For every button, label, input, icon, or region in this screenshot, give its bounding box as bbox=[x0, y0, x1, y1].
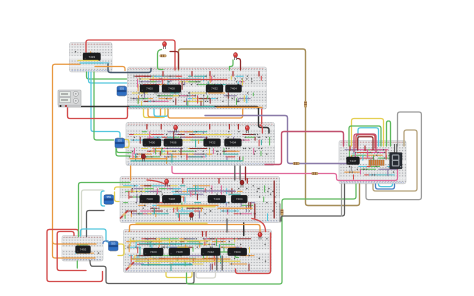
breadboard BB3 bbox=[120, 177, 280, 223]
wire orange line on BB3 b bbox=[218, 207, 252, 209]
svg-text:7447: 7447 bbox=[350, 159, 357, 163]
svg-text:7432: 7432 bbox=[214, 197, 221, 201]
wire bundle on BB6 bbox=[345, 149, 402, 179]
resistor R inline olive bbox=[304, 101, 306, 108]
wire red hook right BB2 bbox=[260, 125, 263, 133]
wire gray wire BB6 to BB3 bbox=[281, 184, 345, 221]
wire bundle on BB0 bbox=[75, 51, 109, 63]
svg-text:7408: 7408 bbox=[170, 141, 177, 145]
wire green wire BB0 to 555 T2 bbox=[94, 72, 114, 140]
small resistors on rails bbox=[147, 72, 365, 238]
resistor Rd1 BB3 left (diagonal) bbox=[121, 211, 128, 218]
wire black wire BB3 to BB4 bbox=[243, 223, 245, 236]
wire red loop above BB6 bbox=[356, 135, 375, 148]
wire cyan wire BB0 to BB1 bbox=[89, 72, 127, 83]
IC U14 on BB4 bbox=[169, 248, 190, 256]
resistor Rd2 BB4 left (diagonal) bbox=[127, 263, 134, 270]
wire yellow hook right of 555 T4 bbox=[118, 244, 124, 256]
wire gray wire 555 T3 to BB5 bbox=[87, 211, 105, 237]
wire green wire LED2 to BB1 bbox=[230, 60, 234, 70]
wire magenta loop over BB6 bbox=[354, 134, 376, 152]
wire yellow hook 555 T2 bbox=[125, 140, 130, 148]
IC U5 on BB2 bbox=[143, 139, 161, 147]
wire yellow line on BB4 b bbox=[135, 260, 240, 262]
svg-text:7408: 7408 bbox=[168, 87, 175, 91]
wire darkred vertical on BB3 bbox=[254, 204, 256, 218]
wire cyan loop below BB6 bbox=[379, 184, 393, 187]
wire bundle on BB5 bbox=[76, 245, 100, 254]
LED D4 on BB2 bbox=[245, 126, 249, 134]
wire red curve BB3 to BB4 bbox=[252, 219, 266, 232]
wire navy wire BB0 to BB1 bbox=[108, 64, 151, 73]
wire black wire on BB4 top bbox=[243, 230, 245, 236]
resistor network RN1 on BB6 bbox=[369, 160, 384, 166]
wire yellow loop above BB6 bbox=[352, 119, 384, 147]
wire cyan U loop BB1-BB2 bbox=[154, 109, 168, 116]
wire cyan arc over BB5 to 555 T4 bbox=[81, 229, 109, 242]
resistor R inline pink bbox=[312, 172, 319, 174]
wire gray big loop around BB6 right bbox=[366, 112, 421, 200]
wire darkred wire BB2-BB3 bbox=[245, 167, 247, 180]
wire green wire BB0 to BB1 bbox=[87, 72, 127, 79]
svg-text:7404: 7404 bbox=[236, 197, 243, 201]
wire orange wire BB2 to BB3 bbox=[130, 166, 132, 180]
svg-text:7408: 7408 bbox=[168, 197, 175, 201]
wire yellow hook 555 T3 bbox=[115, 192, 120, 202]
wire bundle on BB3 bbox=[124, 185, 277, 221]
svg-text:555: 555 bbox=[120, 87, 125, 91]
wire gray drop on BB4 b bbox=[221, 256, 223, 270]
LED D6 on BB3 bbox=[240, 180, 244, 188]
wire green wire BB6 to BB4 (long) bbox=[187, 184, 357, 284]
wire gray wire BB2-BB3 a bbox=[234, 166, 236, 180]
wire crimson wire BB2 to BB6 bbox=[265, 132, 344, 165]
wire gray tick BB3-BB4 gap bbox=[226, 219, 228, 232]
svg-text:7400: 7400 bbox=[146, 197, 153, 201]
IC U2 on BB1 bbox=[162, 85, 181, 93]
IC U10 on BB3 bbox=[162, 195, 181, 203]
IC U7 on BB2 bbox=[204, 139, 221, 147]
7-segment display DS1 bbox=[390, 144, 402, 169]
wire olive wire BB1 to BB6 (long) bbox=[179, 49, 360, 206]
wire red loop around BB5 (inner) bbox=[57, 232, 86, 271]
wire gray wire BB2-BB3 b bbox=[239, 166, 241, 180]
LED D9 on BB2 mid bbox=[142, 154, 146, 162]
wire green wire BB3 to BB5 bbox=[79, 183, 131, 237]
wire darkred hook LED1 bbox=[170, 52, 179, 70]
LED D5 on BB3 bbox=[165, 179, 169, 187]
wire orange branch into BB5 bbox=[53, 242, 97, 245]
wire green wire 555 T2 to BB2 bbox=[117, 148, 132, 153]
wire orange line on BB2 bbox=[130, 158, 167, 160]
wire gray vertical BB3 right bbox=[279, 204, 281, 222]
wire orange wire left loop (BB0 to BB5) bbox=[53, 64, 96, 258]
svg-text:555: 555 bbox=[111, 242, 116, 246]
wire bundle on BB1 bbox=[131, 76, 262, 108]
wire bundle on BB4 bbox=[127, 238, 268, 270]
wire yellow U loop BB1-BB2 bbox=[144, 109, 166, 118]
wire purple wire BB1 to BB6 bbox=[205, 116, 346, 164]
wire green narrow loop above BB6 bbox=[387, 121, 391, 146]
wire darkred hook LED2 bbox=[238, 59, 241, 71]
breadboard BB6 bbox=[339, 141, 406, 184]
wire bundle on BB2 bbox=[129, 131, 270, 163]
wire orange wire BB0 to BB1 bbox=[95, 67, 125, 71]
555 timer T2 bbox=[115, 138, 125, 149]
wire orange U loop BB1-BB2 bbox=[148, 109, 161, 117]
wire yellow wire right of 555 T3 to BB3 bbox=[115, 187, 132, 190]
wire teal line on BB1 bbox=[130, 106, 214, 108]
wire red loop from BB0 to BB1 top bbox=[86, 40, 175, 70]
wire orange arc over BB4 bbox=[130, 225, 261, 232]
IC U17 on BB5 bbox=[76, 246, 91, 254]
wire yellow line on BB2 bbox=[202, 134, 231, 136]
wire green wire below BB5 bbox=[76, 261, 78, 268]
breadboard BB1 bbox=[128, 67, 267, 109]
wire pale wire 555 T3 to BB5 bbox=[82, 190, 104, 237]
LED D7 on BB4 bbox=[258, 232, 262, 240]
wire red wire PSU to BB1 bbox=[68, 106, 128, 119]
svg-text:7432: 7432 bbox=[207, 250, 214, 254]
resistor R inline purple bbox=[293, 162, 300, 164]
svg-text:7404: 7404 bbox=[230, 141, 237, 145]
wire blue hook top of 555 T4 bbox=[103, 241, 108, 244]
wire orange line on BB4 bbox=[131, 258, 230, 260]
wire red wrap BB4 right bbox=[236, 233, 271, 274]
wire gray wire BB6 below b bbox=[341, 184, 343, 216]
IC U1 on BB1 bbox=[140, 85, 159, 93]
wire yellow line on BB3 bbox=[160, 206, 215, 208]
breadboard BB4 bbox=[123, 230, 271, 273]
wire purple line on BB3 bbox=[189, 190, 235, 192]
svg-text:7404: 7404 bbox=[230, 87, 237, 91]
555 timer T3 bbox=[104, 194, 114, 205]
wire yellow line on BB4 a bbox=[131, 240, 210, 242]
IC U9 on BB3 bbox=[140, 195, 160, 203]
svg-text:7432: 7432 bbox=[211, 87, 218, 91]
555 timer T4 bbox=[109, 241, 119, 252]
wire pink wire BB2 to BB6 (long) bbox=[172, 167, 398, 181]
wire yellow U below BB4 bbox=[166, 273, 192, 278]
wire red curve into BB3 top bbox=[147, 180, 166, 185]
IC U11 on BB3 bbox=[208, 195, 226, 203]
wire gray drop on BB4 a bbox=[216, 256, 218, 270]
wire dark gray wire BB5 to BB4 bbox=[90, 261, 194, 284]
wire yellow wire BB3 to BB4 gap bbox=[136, 222, 207, 224]
IC U8 on BB2 bbox=[225, 139, 242, 147]
wire darkred loop above BB6 bbox=[358, 137, 373, 150]
IC U3 on BB1 bbox=[206, 85, 223, 93]
wire teal line on BB2 bbox=[131, 160, 242, 162]
wire green loop above BB6 bbox=[349, 126, 381, 146]
svg-text:7400: 7400 bbox=[146, 87, 153, 91]
svg-text:7432: 7432 bbox=[209, 141, 216, 145]
resistor R inline green bbox=[281, 209, 283, 216]
wire darkred wire BB1 to BB2 bbox=[261, 109, 263, 124]
wire cyan loop above BB6 bbox=[358, 128, 379, 146]
svg-text:7400: 7400 bbox=[150, 250, 157, 254]
LED D2 bbox=[234, 53, 238, 61]
svg-text:7408: 7408 bbox=[176, 250, 183, 254]
IC U4 on BB1 bbox=[226, 85, 242, 93]
LED D3 on BB2 bbox=[174, 125, 178, 133]
IC U13 on BB4 bbox=[143, 248, 163, 256]
555 timer T1 bbox=[117, 86, 127, 97]
LED D1 bbox=[163, 42, 167, 50]
breadboard BB0 bbox=[70, 43, 113, 73]
wire cyan wire BB0 to 555 T2 bbox=[91, 72, 120, 138]
wire cyan hook left of 555 T3 bbox=[101, 191, 105, 206]
wire teal line on BB4 a bbox=[140, 243, 203, 245]
svg-text:7404: 7404 bbox=[234, 250, 241, 254]
LED D8 on BB3 mid bbox=[190, 213, 194, 221]
IC U18 on BB6 bbox=[347, 157, 360, 165]
wire orange line on BB1 bottom bbox=[217, 106, 262, 108]
wire green wire LED1 to BB1 bbox=[158, 50, 164, 70]
svg-text:555: 555 bbox=[118, 139, 123, 143]
wire orange L wire BB1-BB2 bbox=[168, 109, 243, 118]
wire green hooks below 555 T2 bbox=[116, 148, 130, 157]
wire orange line on BB3 a bbox=[157, 204, 218, 206]
svg-text:7400: 7400 bbox=[149, 141, 156, 145]
wire red line on BB1 upper bbox=[150, 79, 227, 81]
IC U12 on BB3 bbox=[231, 195, 247, 203]
svg-text:555: 555 bbox=[107, 195, 112, 199]
wire pale U loop below BB4 bbox=[196, 273, 216, 279]
svg-text:7493: 7493 bbox=[88, 55, 95, 59]
wire red loop around BB5 (outer) bbox=[47, 229, 103, 281]
power supply PS1 bbox=[58, 90, 81, 107]
breadboard BB5 bbox=[62, 236, 103, 262]
wire green step on BB4 right bbox=[220, 252, 238, 258]
IC U6 on BB2 bbox=[164, 139, 183, 147]
resistor R under LED1 bbox=[160, 55, 167, 57]
wire blue loop below BB6 bbox=[376, 184, 395, 189]
wire cyan wire on BB0 bbox=[80, 62, 103, 64]
svg-text:7493: 7493 bbox=[80, 248, 87, 252]
wire darkred vertical BB3 right bbox=[273, 181, 275, 218]
wire teal line on BB4 b bbox=[142, 264, 192, 266]
wire black wire PSU to BB2 bbox=[68, 107, 269, 134]
wire tan loop around BB6 right bbox=[373, 130, 417, 191]
IC U16 on BB4 bbox=[228, 248, 247, 256]
wire yellow wire on BB0 bbox=[78, 60, 98, 62]
breadboard BB2 bbox=[126, 123, 275, 166]
IC U15 on BB4 bbox=[201, 248, 220, 256]
IC U0 on BB0 bbox=[83, 53, 101, 61]
